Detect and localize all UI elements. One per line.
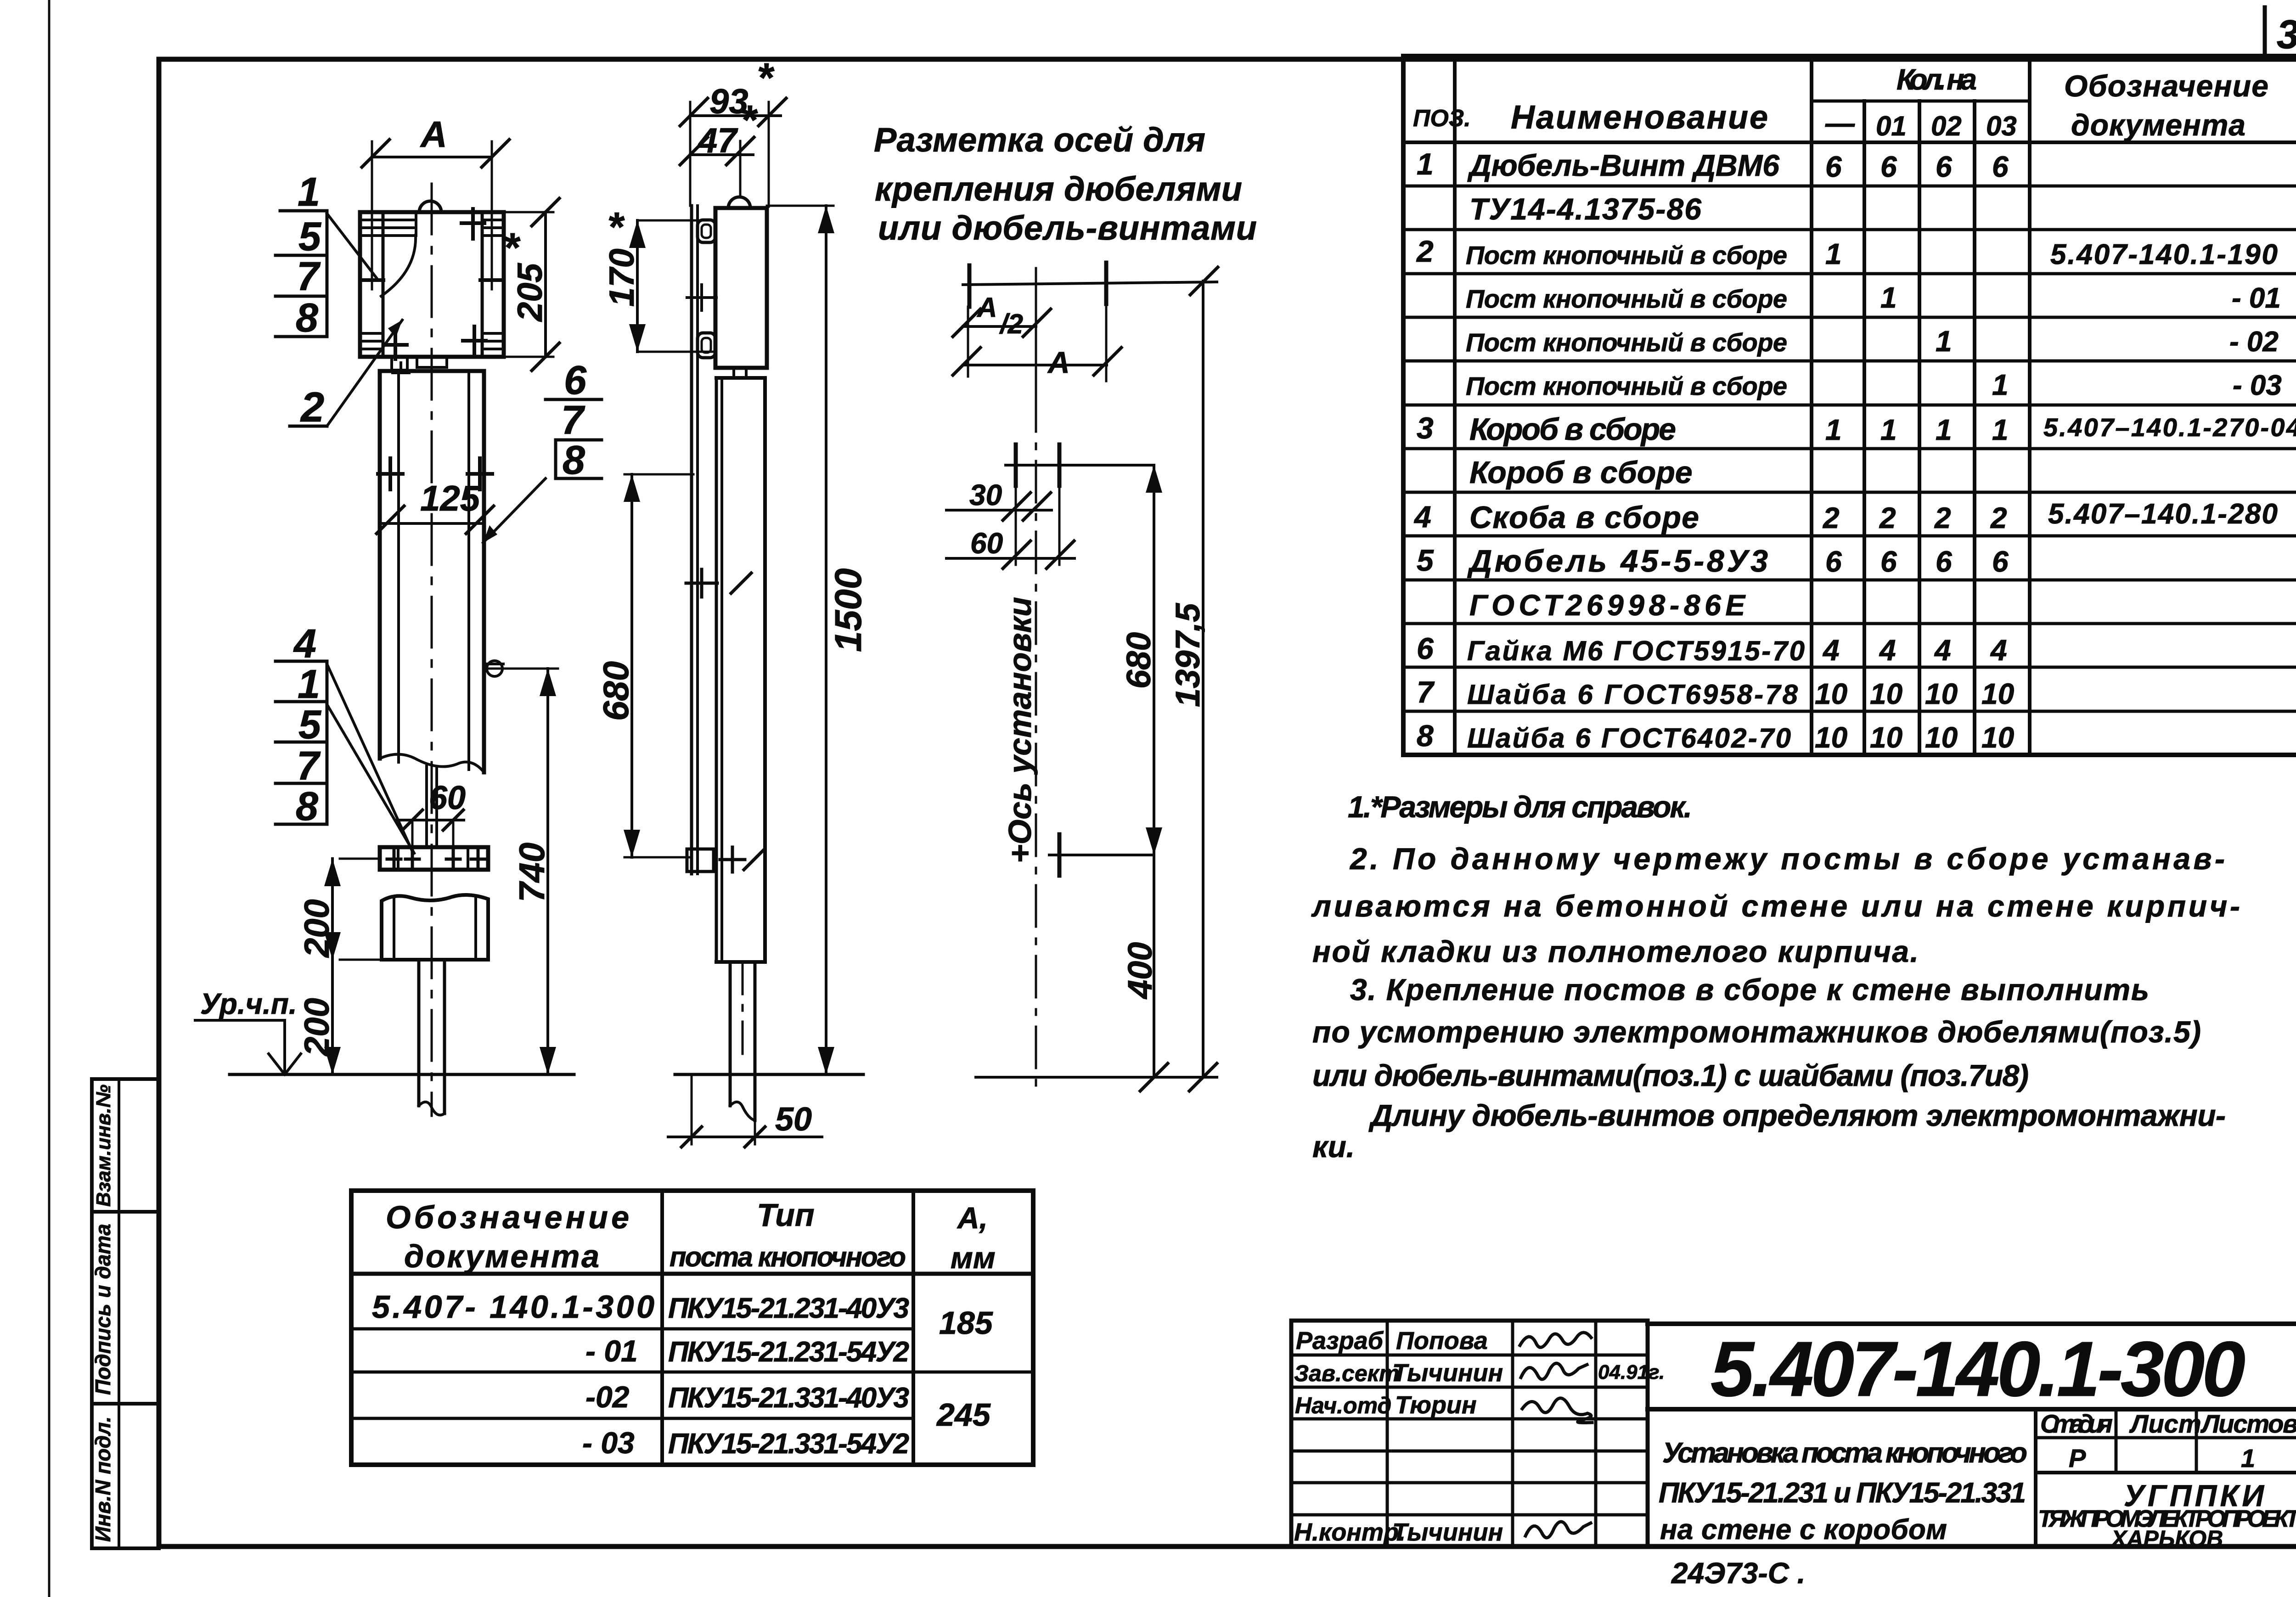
svg-text:50: 50	[775, 1101, 812, 1138]
pipe front	[417, 960, 421, 1106]
title block signature table	[1291, 1321, 1648, 1546]
svg-text:10: 10	[1870, 677, 1902, 710]
svg-text:2: 2	[300, 384, 324, 431]
dim A/2	[963, 325, 1036, 328]
dim 200 lower	[331, 960, 334, 1074]
svg-text:10: 10	[1870, 721, 1902, 754]
bracket cross right-mid	[480, 278, 503, 282]
svg-text:1: 1	[1417, 147, 1434, 181]
svg-text:Пост кнопочный в сборе: Пост кнопочный в сборе	[1466, 371, 1787, 400]
dim 1500	[767, 205, 833, 207]
svg-text:крепления дюбелями: крепления дюбелями	[875, 170, 1242, 208]
svg-text:Инв.N подл.: Инв.N подл.	[91, 1417, 115, 1542]
korob bottom break	[380, 754, 484, 772]
svg-text:Короб в сборе: Короб в сборе	[1469, 455, 1693, 490]
svg-text:ПКУ15-21.231 и ПКУ15-21.331: ПКУ15-21.231 и ПКУ15-21.331	[1659, 1477, 2026, 1509]
svg-text:- 01: - 01	[2232, 282, 2281, 314]
bracket right strip hatch top	[482, 219, 504, 221]
svg-text:7: 7	[297, 253, 321, 299]
svg-text:30: 30	[969, 478, 1002, 512]
parts table header lines	[1812, 100, 2030, 103]
svg-text:*: *	[757, 55, 775, 101]
bracket right strip inner edge	[481, 212, 484, 357]
svg-text:Ур.ч.п.: Ур.ч.п.	[200, 987, 297, 1020]
screw on korob right	[487, 661, 502, 676]
korob cross right	[467, 472, 492, 476]
svg-text:4: 4	[1990, 634, 2007, 667]
svg-text:—: —	[1825, 107, 1855, 140]
svg-text:Тюрин: Тюрин	[1395, 1391, 1477, 1419]
svg-text:Длину дюбель-винтов определяют: Длину дюбель-винтов определяют электромо…	[1368, 1098, 2226, 1132]
svg-text:поста кнопочного: поста кнопочного	[670, 1242, 906, 1272]
svg-text:1: 1	[1880, 281, 1897, 314]
svg-text:1: 1	[1880, 413, 1897, 446]
svg-text:3. Крепление постов в сборе к: 3. Крепление постов в сборе к стене выпо…	[1350, 973, 2149, 1007]
svg-text:1: 1	[1936, 325, 1952, 358]
svg-text:- 02: - 02	[2229, 326, 2279, 358]
svg-text:мм: мм	[951, 1241, 996, 1275]
side pipe	[729, 962, 732, 1106]
wall line	[690, 206, 693, 874]
bracket right strip hatch bottom	[482, 332, 504, 335]
svg-text:200: 200	[298, 998, 337, 1057]
side box	[716, 376, 765, 380]
svg-text:1: 1	[2241, 1444, 2255, 1473]
bottom-left table columns	[660, 1191, 664, 1465]
dim A	[963, 364, 1107, 366]
svg-text:2: 2	[1879, 501, 1896, 534]
svg-text:5.407-140.1-190: 5.407-140.1-190	[2050, 239, 2278, 270]
svg-text:1: 1	[1992, 368, 2009, 401]
svg-text:А: А	[976, 292, 997, 323]
svg-text:документа: документа	[404, 1238, 599, 1274]
svg-text:Разметка осей для: Разметка осей для	[874, 121, 1205, 159]
svg-text:Кол. на: Кол. на	[1896, 63, 1977, 96]
svg-text:245: 245	[936, 1397, 991, 1433]
svg-text:7: 7	[297, 743, 321, 788]
svg-text:205: 205	[511, 262, 550, 322]
extension lines top	[689, 102, 692, 206]
svg-text:6: 6	[1936, 150, 1952, 183]
side bracket half circle	[728, 197, 750, 208]
screw clip bottom	[698, 333, 715, 358]
bracket wire curve	[381, 235, 416, 296]
svg-text:1: 1	[1936, 413, 1952, 446]
svg-text:6: 6	[1880, 150, 1897, 183]
axis diagram centerline	[1035, 268, 1037, 390]
svg-text:или дюбель-винтами(поз.1) с ша: или дюбель-винтами(поз.1) с шайбами (поз…	[1312, 1058, 2029, 1092]
svg-text:6: 6	[1880, 545, 1897, 578]
axis bottom line	[976, 1076, 1217, 1079]
svg-text:200: 200	[298, 899, 337, 958]
stamp column left	[92, 1079, 159, 1548]
svg-text:2: 2	[1416, 234, 1434, 268]
dim 680 side	[625, 473, 693, 476]
svg-text:10: 10	[1981, 721, 2014, 754]
bracket top half circle	[419, 201, 441, 212]
svg-text:Наименование: Наименование	[1511, 99, 1768, 136]
ground line front	[230, 1073, 574, 1076]
svg-text:ПКУ15-21.331-40У3: ПКУ15-21.331-40У3	[668, 1382, 909, 1414]
svg-text:Обозначение: Обозначение	[386, 1199, 629, 1235]
svg-text:4: 4	[1822, 634, 1840, 667]
bracket cross left-mid	[360, 278, 383, 282]
svg-text:Дюбель-Винт ДВМ6: Дюбель-Винт ДВМ6	[1467, 148, 1780, 182]
dim 60	[946, 557, 1075, 560]
svg-text:Шайба 6 ГОСТ6402-70: Шайба 6 ГОСТ6402-70	[1467, 723, 1791, 754]
page trim line left	[48, 0, 51, 1597]
svg-text:4: 4	[1879, 634, 1896, 667]
axis cross top-left	[968, 265, 972, 307]
svg-text:680: 680	[596, 661, 636, 721]
bracket cross bottom-left	[384, 343, 407, 347]
svg-text:Короб в сборе: Короб в сборе	[1469, 412, 1676, 447]
bolt axis left	[371, 141, 373, 289]
svg-text:1.*Размеры для справок.: 1.*Размеры для справок.	[1348, 790, 1692, 824]
svg-text:680: 680	[1120, 632, 1158, 689]
svg-text:8: 8	[296, 783, 318, 829]
svg-text:8: 8	[563, 437, 585, 483]
parts table row lines	[1403, 185, 2296, 188]
svg-text:- 03: - 03	[2233, 370, 2282, 401]
svg-text:ПКУ15-21.231-54У2: ПКУ15-21.231-54У2	[668, 1336, 909, 1368]
svg-text:/2: /2	[999, 309, 1023, 339]
svg-text:ПКУ15-21.331-54У2: ПКУ15-21.331-54У2	[668, 1428, 909, 1460]
svg-text:5.407-140.1-300: 5.407-140.1-300	[1711, 1326, 2245, 1413]
korob box outline	[380, 369, 484, 373]
svg-text:ГОСТ26998-86Е: ГОСТ26998-86Е	[1469, 589, 1746, 622]
svg-text:125: 125	[420, 478, 481, 518]
bracket left strip bottom hatch	[360, 332, 383, 335]
svg-text:Тип: Тип	[757, 1197, 815, 1233]
svg-text:-02: -02	[585, 1380, 630, 1414]
dim 680 vertical	[1153, 465, 1155, 855]
extension line right hole axis	[1105, 304, 1108, 381]
svg-text:ливаются на бетонной стене или: ливаются на бетонной стене или на стене …	[1311, 889, 2240, 923]
svg-text:Пост кнопочный в сборе: Пост кнопочный в сборе	[1466, 284, 1787, 313]
screw bump on side box top	[734, 367, 746, 378]
tabs under bracket	[392, 357, 407, 370]
sheet number box	[2263, 7, 2267, 59]
svg-text:24Э73-С .: 24Э73-С .	[1671, 1557, 1805, 1590]
cross row3	[1058, 834, 1062, 876]
svg-text:185: 185	[939, 1305, 993, 1341]
svg-text:Установка поста кнопочного: Установка поста кнопочного	[1662, 1437, 2027, 1469]
svg-text:4: 4	[1934, 634, 1951, 667]
svg-text:1: 1	[298, 661, 320, 707]
svg-text:5.407–140.1-270-04: 5.407–140.1-270-04	[2043, 413, 2296, 442]
svg-text:400: 400	[1121, 942, 1159, 1000]
svg-text:4: 4	[293, 621, 316, 666]
svg-text:10: 10	[1815, 677, 1847, 710]
screw axis mid	[687, 296, 716, 299]
cross row2 left	[1014, 444, 1018, 486]
svg-text:Взам.инв.№: Взам.инв.№	[92, 1085, 115, 1207]
bracket outline	[360, 212, 504, 357]
svg-text:1: 1	[1825, 237, 1842, 270]
axis top line	[963, 282, 1217, 285]
svg-text:3: 3	[1417, 411, 1434, 445]
bottom-left table outer	[351, 1191, 1033, 1465]
svg-text:по усмотрению электромонтажник: по усмотрению электромонтажников дюбелям…	[1312, 1015, 2201, 1049]
svg-text:ки.: ки.	[1312, 1130, 1355, 1164]
svg-text:1: 1	[1825, 413, 1842, 446]
parts table outer	[1403, 56, 2296, 755]
axis row3 line	[1049, 854, 1154, 856]
leader from 6-7-8	[483, 478, 546, 543]
svg-text:1397,5: 1397,5	[1169, 602, 1207, 707]
front view centerline	[431, 184, 433, 1116]
svg-text:ПОЗ.: ПОЗ.	[1413, 105, 1471, 132]
anchor rod	[425, 766, 428, 847]
svg-text:740: 740	[512, 843, 552, 902]
svg-text:Н.контр.: Н.контр.	[1294, 1518, 1406, 1546]
ground line side	[675, 1073, 863, 1076]
svg-text:Пост кнопочный в сборе: Пост кнопочный в сборе	[1466, 328, 1787, 357]
svg-text:*: *	[740, 97, 758, 143]
svg-text:6: 6	[1825, 150, 1842, 183]
svg-text:Тычинин: Тычинин	[1392, 1359, 1503, 1387]
svg-text:02: 02	[1931, 111, 1962, 141]
svg-text:2: 2	[1934, 501, 1951, 534]
svg-text:Гайка М6 ГОСТ5915-70: Гайка М6 ГОСТ5915-70	[1467, 635, 1805, 666]
svg-text:34: 34	[2277, 11, 2296, 57]
svg-text:ПКУ15-21.231-40У3: ПКУ15-21.231-40У3	[668, 1293, 909, 1324]
hole axis verticals row2	[1015, 486, 1017, 565]
svg-text:Разраб: Разраб	[1296, 1327, 1384, 1355]
stage columns	[2115, 1409, 2118, 1473]
cross row2 right	[1058, 444, 1062, 486]
svg-text:А,: А,	[957, 1201, 988, 1235]
svg-text:Нач.отд: Нач.отд	[1295, 1393, 1391, 1418]
svg-text:10: 10	[1925, 721, 1958, 754]
dim 170	[637, 219, 715, 222]
axis cross top-right	[1104, 263, 1109, 304]
title block big code box	[1648, 1321, 2296, 1326]
svg-text:- 03: - 03	[582, 1426, 635, 1460]
bottom-left table rows	[351, 1272, 1033, 1276]
svg-text:Дюбель 45-5-8У3: Дюбель 45-5-8У3	[1467, 544, 1768, 579]
axis row2 line	[1006, 464, 1154, 467]
bracket cross bottom-right	[463, 339, 486, 343]
svg-text:10: 10	[1815, 721, 1847, 754]
svg-text:документа: документа	[2071, 108, 2245, 142]
svg-text:2: 2	[1990, 501, 2007, 534]
svg-text:Стадия: Стадия	[2040, 1409, 2113, 1438]
svg-text:2: 2	[1823, 501, 1840, 534]
side bracket body	[715, 208, 767, 368]
bolt axis right	[491, 141, 493, 289]
svg-text:170: 170	[602, 248, 642, 307]
svg-text:Шайба 6 ГОСТ6958-78: Шайба 6 ГОСТ6958-78	[1467, 679, 1798, 710]
svg-text:10: 10	[1925, 677, 1958, 710]
svg-text:Зав.сект: Зав.сект	[1294, 1361, 1399, 1386]
svg-text:5.407- 140.1-300: 5.407- 140.1-300	[372, 1289, 654, 1325]
leader to bracket bolt	[327, 214, 377, 279]
leaders to bottom clamp	[327, 664, 412, 850]
dim 1397,5 vertical	[1202, 281, 1204, 1077]
parts table vertical lines	[1453, 56, 1457, 755]
svg-text:7: 7	[561, 397, 585, 443]
svg-text:6: 6	[1825, 545, 1842, 578]
svg-text:ной кладки из полнотелого кирп: ной кладки из полнотелого кирпича.	[1312, 934, 1919, 968]
svg-text:Р: Р	[2069, 1444, 2086, 1473]
bracket top plate hatch	[360, 219, 416, 221]
svg-text:А: А	[1047, 345, 1070, 379]
svg-text:5: 5	[1417, 543, 1434, 577]
svg-text:Пост кнопочный в сборе: Пост кнопочный в сборе	[1466, 241, 1787, 270]
svg-text:1500: 1500	[827, 568, 869, 652]
svg-text:03: 03	[1986, 111, 2017, 141]
screw clip top	[698, 220, 715, 242]
svg-text:6: 6	[1992, 150, 2009, 183]
dim 400 vertical	[1153, 855, 1155, 1077]
svg-text:6: 6	[564, 357, 587, 403]
svg-text:ХАРЬКОВ: ХАРЬКОВ	[2110, 1526, 2223, 1552]
svg-text:7: 7	[1417, 675, 1435, 709]
svg-text:*: *	[503, 225, 521, 271]
bottom clamp front	[380, 847, 488, 870]
svg-text:6: 6	[1992, 545, 2009, 578]
svg-text:5: 5	[298, 702, 321, 747]
svg-text:Подпись и дата: Подпись и дата	[91, 1224, 115, 1395]
dim 740	[487, 668, 558, 670]
svg-text:Попова: Попова	[1396, 1327, 1488, 1355]
svg-text:5.407–140.1-280: 5.407–140.1-280	[2048, 498, 2278, 530]
svg-text:60: 60	[970, 527, 1003, 560]
dim 200 upper	[340, 858, 380, 860]
svg-text:01: 01	[1876, 111, 1907, 141]
wall piece	[382, 895, 488, 960]
cross on wall mid	[686, 582, 717, 585]
svg-text:04.91г.: 04.91г.	[1598, 1361, 1665, 1383]
svg-text:1: 1	[298, 169, 320, 214]
tick at 1397 top	[1190, 267, 1218, 295]
svg-text:- 01: - 01	[585, 1334, 638, 1368]
svg-text:Лист: Лист	[2129, 1409, 2201, 1438]
svg-text:ТУ14-4.1375-86: ТУ14-4.1375-86	[1469, 192, 1702, 226]
korob cross left	[378, 472, 403, 476]
svg-text:на стене с коробом: на стене с коробом	[1660, 1514, 1947, 1546]
svg-text:*: *	[607, 204, 625, 250]
svg-text:4: 4	[1413, 500, 1431, 534]
clamp crosses	[387, 858, 401, 861]
dim 30	[946, 509, 1052, 512]
svg-text:1: 1	[1992, 413, 2009, 446]
svg-text:или дюбель-винтами: или дюбель-винтами	[878, 209, 1257, 247]
title name box	[2034, 1409, 2037, 1546]
svg-text:6: 6	[1417, 631, 1434, 665]
bracket left strip inner edge	[382, 212, 385, 357]
svg-text:10: 10	[1981, 677, 2014, 710]
svg-text:8: 8	[296, 295, 318, 340]
side bottom clamp	[687, 849, 714, 872]
korob inner lines	[397, 371, 400, 762]
svg-text:2. По данному чертежу посты в: 2. По данному чертежу посты в сборе уста…	[1349, 842, 2225, 876]
svg-text:Листов: Листов	[2200, 1409, 2296, 1438]
dim 205	[504, 211, 553, 214]
svg-text:8: 8	[1417, 719, 1434, 753]
bracket cross top-right	[461, 221, 484, 225]
svg-text:Обозначение: Обозначение	[2064, 69, 2268, 103]
svg-text:+Ось установки: +Ось установки	[1002, 597, 1038, 863]
svg-text:Скоба в сборе: Скоба в сборе	[1469, 500, 1699, 535]
svg-text:Тычинин: Тычинин	[1392, 1518, 1503, 1546]
svg-text:6: 6	[1936, 545, 1952, 578]
extension line left hole axis	[967, 307, 969, 377]
svg-text:5: 5	[298, 214, 321, 259]
svg-text:А: А	[420, 114, 447, 155]
